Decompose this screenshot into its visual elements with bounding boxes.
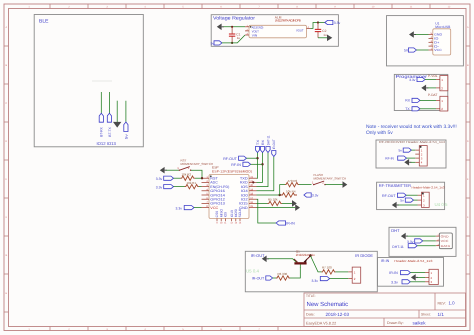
wire to 3.3v flag [318,22,325,24]
RF-TRANSMITTER section box [377,182,445,209]
svg-text:SCLK: SCLK [238,208,242,217]
svg-text:BLE: BLE [39,18,49,24]
net flag IR-IN (box) [389,271,410,276]
MCU bottom pin names [215,208,242,217]
svg-text:R7 100: R7 100 [322,265,332,269]
net flag 5V (USB) [404,48,416,53]
ground arrow (receiver) [404,159,411,166]
junction [201,177,203,179]
svg-text:RF-OUT: RF-OUT [382,194,396,198]
net flag 5v (receiver) [399,148,412,152]
svg-text:LM1117MPX-ADJ/NOPB: LM1117MPX-ADJ/NOPB [275,19,301,23]
ground arrow (FLASH) [343,181,348,188]
wire [411,161,416,163]
junction RXD [252,181,254,183]
resistor R5 10k [268,198,283,206]
net flag BT-TX [107,113,112,136]
net flag 3.3v (VCC) [176,206,195,211]
ground arrow (IO15) [292,200,297,207]
svg-text:G: G [5,254,7,257]
wire R2 to RST [195,177,202,179]
net flag 3.3v (programmer) [409,77,425,82]
svg-text:RF-OUT: RF-OUT [223,157,237,161]
svg-text:R6 330: R6 330 [278,272,288,276]
net flag IR-OUT (base input) [252,276,273,281]
wire gnd to emitter [268,259,296,263]
svg-text:1/1: 1/1 [438,312,445,317]
wire BT-TX [108,92,110,113]
svg-text:Sheet:: Sheet: [421,312,431,316]
svg-text:New Schematic: New Schematic [307,301,349,308]
svg-text:MOMENTARY_SWITCH: MOMENTARY_SWITCH [314,176,347,180]
svg-text:3.3v: 3.3v [334,21,341,25]
ground arrow (VR left) [217,24,224,31]
svg-text:IR-OUT: IR-OUT [252,276,265,280]
svg-text:U5 0.4: U5 0.4 [246,269,259,274]
net flag 5v (transmitter) [400,198,413,203]
MCU right pin names [239,177,248,210]
net flag 3.3v (EN pullup) [156,185,174,190]
svg-text:IR-OUT: IR-OUT [251,253,265,258]
RF-RECEIVER section box [376,140,446,168]
junction [231,26,233,28]
junction IO0 [279,194,281,196]
MCU left pin numbers [206,176,208,208]
svg-text:Header-Male-2.54_1x3: Header-Male-2.54_1x3 [394,259,432,263]
MCU right pins [249,178,257,207]
wire [407,235,435,237]
svg-text:IR DIODE: IR DIODE [355,253,373,258]
ground arrow (DHT) [401,233,408,240]
wire R7 to header [336,271,349,273]
svg-text:GND: GND [441,234,450,238]
header RF receiver 1x4 [415,146,427,166]
svg-text:TX: TX [405,107,410,111]
wire R1 to EN [199,186,202,188]
net flag TX (vertical) [255,139,259,153]
resistor R2 10k [181,173,195,181]
svg-text:3.3v: 3.3v [156,177,163,181]
wire [174,186,185,188]
wire [247,157,258,159]
capacitor C2 [315,23,327,38]
wire to ground [116,101,118,122]
wire C2 to ground [318,37,327,39]
svg-text:DHT: DHT [391,228,400,233]
header P-DAT [428,93,448,111]
header IR diode 1x2 [348,267,360,283]
MCU left pins [202,178,210,207]
wire [420,99,436,101]
wire collector to R7 [310,256,321,272]
svg-text:10k R4: 10k R4 [286,189,296,193]
svg-text:G: G [467,254,469,257]
header RF transmitter 1x3 [418,192,430,207]
wire gnd-GND [416,34,429,36]
wire flag to R6 [273,277,276,279]
header IR-IN 1x3 [425,269,438,284]
svg-text:IR-IN: IR-IN [381,259,390,263]
svg-text:2N2222AMolo: 2N2222AMolo [296,253,315,257]
wire [251,163,263,165]
svg-text:1u: 1u [237,36,241,40]
faint line [92,80,112,82]
wire GND to gnd [257,207,296,209]
svg-text:Voltage Regulator: Voltage Regulator [213,16,255,22]
svg-text:VCC: VCC [210,206,219,210]
wire gnd-switch [166,169,179,171]
capacitor C1 [229,27,241,43]
wire switch to gnd [325,184,342,186]
ground arrow (RST) [160,167,167,174]
svg-text:U4 0.5: U4 0.5 [435,202,448,207]
svg-text:P-DAT: P-DAT [428,93,437,97]
Voltage Regulator section box [211,15,338,47]
wire IO15 to R5 [257,202,268,204]
svg-text:1u: 1u [323,33,327,37]
svg-text:5v: 5v [400,199,404,203]
net flag RF-OUT (to TX) [223,156,246,161]
regulator ALM LM1117MPX-ADJ/NOPB [245,15,311,38]
MCU left pin names [210,177,229,210]
wire IO0 to junction [257,194,282,196]
Programmer section box [394,74,448,111]
svg-text:C: C [5,102,7,105]
junction collector [309,254,312,257]
wire [423,240,436,242]
svg-text:IR-IN: IR-IN [389,271,398,275]
svg-text:D: D [5,140,7,143]
wire IO2 down [257,199,277,223]
svg-text:saikek: saikek [413,320,427,325]
junction [317,21,319,23]
svg-text:RX: RX [405,99,410,103]
DHT section box [389,227,456,256]
wire [425,79,436,81]
svg-text:BT-RX: BT-RX [100,126,104,136]
wire [174,177,181,179]
svg-text:RF-RECEIVER Header-Male-2.54_: RF-RECEIVER Header-Male-2.54_1x4 [379,140,445,144]
wire IO4 column [257,157,274,191]
wire [398,204,417,206]
net flag 5v (BLE) [124,122,129,139]
net flag BT-RX [99,113,104,136]
svg-text:3.3v: 3.3v [312,279,319,283]
resistor R6 330 [276,272,290,280]
svg-text:BT-TX: BT-TX [108,126,112,136]
wire [428,87,436,89]
wire IO0 junction up to R3 [280,185,285,195]
connector U1 MicroUSB [429,21,452,55]
ground arrow (IR-IN box) [411,274,418,281]
ground arrow (transmitter) [392,202,399,209]
ground arrow (IR-OUT emitter) [262,256,269,263]
ground arrow (VR right) [327,35,332,42]
wire RXD column [257,153,263,183]
net flag IR-IN (from IO2) [276,221,295,226]
svg-text:470 R3: 470 R3 [288,179,298,183]
svg-text:RF-IN: RF-IN [231,163,241,167]
DHT sensor U [436,233,453,249]
svg-text:2018-12-03: 2018-12-03 [326,312,350,317]
transistor Q1 2N2222A [294,249,315,268]
svg-text:3.3v: 3.3v [156,185,163,189]
note text [366,124,457,136]
net flag DHT-11 (vertical) [266,135,270,152]
wire [410,272,425,274]
svg-text:DHT-11: DHT-11 [392,245,404,249]
svg-text:RF-IN: RF-IN [385,156,394,160]
svg-text:P-VOL: P-VOL [428,74,438,78]
net flag TX [405,107,420,111]
net flag RF-IN (receiver) [385,156,406,160]
svg-text:VCC: VCC [434,48,443,52]
svg-text:EasyEDA V5.8.22: EasyEDA V5.8.22 [306,321,336,325]
switch RST MOMENTARY_SWITCH [177,159,213,171]
net flag RX [405,98,420,102]
svg-text:C: C [467,102,469,105]
svg-text:3.3v: 3.3v [312,194,319,198]
wire [420,108,436,110]
svg-text:IO9: IO9 [224,212,228,217]
svg-text:R5 10k: R5 10k [268,198,278,202]
junction [231,42,233,44]
svg-text:3.3v: 3.3v [409,78,415,82]
svg-text:1.0: 1.0 [449,301,456,306]
svg-text:IR-IN: IR-IN [286,222,295,226]
resistor R4 10k [281,189,297,197]
net flag 3.3v (DHT) [407,239,423,244]
svg-text:H: H [5,292,7,295]
MCU right pin numbers [250,176,253,208]
net flag 3.3v (IO0 pullup) [304,193,319,198]
ground arrow (programmer) [421,85,428,92]
wire [417,245,436,247]
wire [410,281,425,283]
header P-VOL [428,74,448,91]
svg-text:5v: 5v [124,134,128,139]
switch FLASH MOMENTARY_SWITCH [312,173,346,185]
svg-text:MicroUSB: MicroUSB [435,25,451,29]
svg-text:RX: RX [261,139,265,145]
svg-text:DATA: DATA [441,244,451,248]
ground arrow (USB) [409,31,416,38]
svg-text:Note - receiver would not work: Note - receiver would not work with 3.3v… [366,124,457,130]
svg-text:ESP-12F(ESP8266MOD): ESP-12F(ESP8266MOD) [212,170,252,174]
svg-text:IO12 IO13: IO12 IO13 [97,141,117,146]
svg-text:3.3v: 3.3v [391,281,398,285]
resistor R7 100 [322,265,336,274]
svg-text:VCC: VCC [441,239,450,243]
net flag 3.3v (IR diode) [312,277,330,283]
wire to VCC [194,207,202,209]
svg-text:IR-OUT: IR-OUT [272,139,276,149]
wire R6 to base [290,268,300,279]
IR-OUT section box [245,251,377,291]
svg-text:Date:: Date: [306,313,315,317]
svg-text:REV:: REV: [438,301,446,305]
junction RF-OUT on TX [256,157,258,159]
wire 3.3v to header pin2 [330,278,349,280]
net flag RX (vertical) [260,139,264,153]
MCU bottom pin numbers [216,222,242,225]
junction RF-IN on RX [261,163,263,165]
net flag RF-IN (to RX) [231,162,250,167]
BLE section box [34,15,143,147]
ground arrow (BLE) [113,122,121,128]
wire [414,199,418,201]
svg-text:RF-TRASMITTER: RF-TRASMITTER [379,183,411,188]
ground arrow (GND) [295,204,300,211]
MCU bottom pins [217,219,240,222]
wire VOUT to junction [311,23,319,29]
svg-text:Header-Male-2.54_1x3: Header-Male-2.54_1x3 [412,186,445,190]
wire R3 to switch [299,184,312,186]
svg-text:VOUT: VOUT [296,28,304,32]
wire gnd to ADJ [224,26,246,28]
resistor R1 10k [185,181,199,189]
wire 5v to VIN [222,35,245,43]
net flag IR-OUT (vertical) [272,139,276,156]
wire IO5 column [257,153,269,187]
svg-text:VIN: VIN [252,33,257,37]
wire [407,157,416,159]
wire R5 to gnd [282,202,292,204]
wire TXD column [257,153,258,179]
wire [406,194,417,196]
wire [417,276,425,278]
svg-text:MOMENTARY_SWITCH: MOMENTARY_SWITCH [181,162,214,166]
svg-text:TITLE:: TITLE: [306,294,316,298]
wire switch to RST [191,170,202,178]
title block text [306,294,455,325]
svg-text:Only with 5v: Only with 5v [366,130,393,136]
svg-text:DHT-11: DHT-11 [266,135,270,145]
net flag 5v (VR input) [211,41,222,46]
resistor R3 470 [285,179,299,187]
wire BT-RX [100,92,102,113]
title block [304,293,466,327]
svg-text:5v: 5v [399,148,403,152]
MicroUSB section box [387,16,464,66]
net flag 3.3v (IR-IN box) [391,280,410,285]
net flag RF-OUT (transmitter) [382,193,406,198]
MCU U2 ESP-12F (ESP8266MOD) [209,166,252,219]
wire 5V-VCC [416,49,428,51]
wire 5v [125,101,127,122]
net flag DHT-11 [392,244,417,249]
svg-text:3.3v: 3.3v [176,206,183,210]
wire [411,149,415,151]
net flag 3.3v (VR out) [325,20,341,25]
IR-IN section box [378,258,444,287]
svg-text:Drawn By:: Drawn By: [387,321,404,325]
svg-text:D: D [467,140,469,143]
net flag 3.3v (RST pullup) [156,176,174,181]
